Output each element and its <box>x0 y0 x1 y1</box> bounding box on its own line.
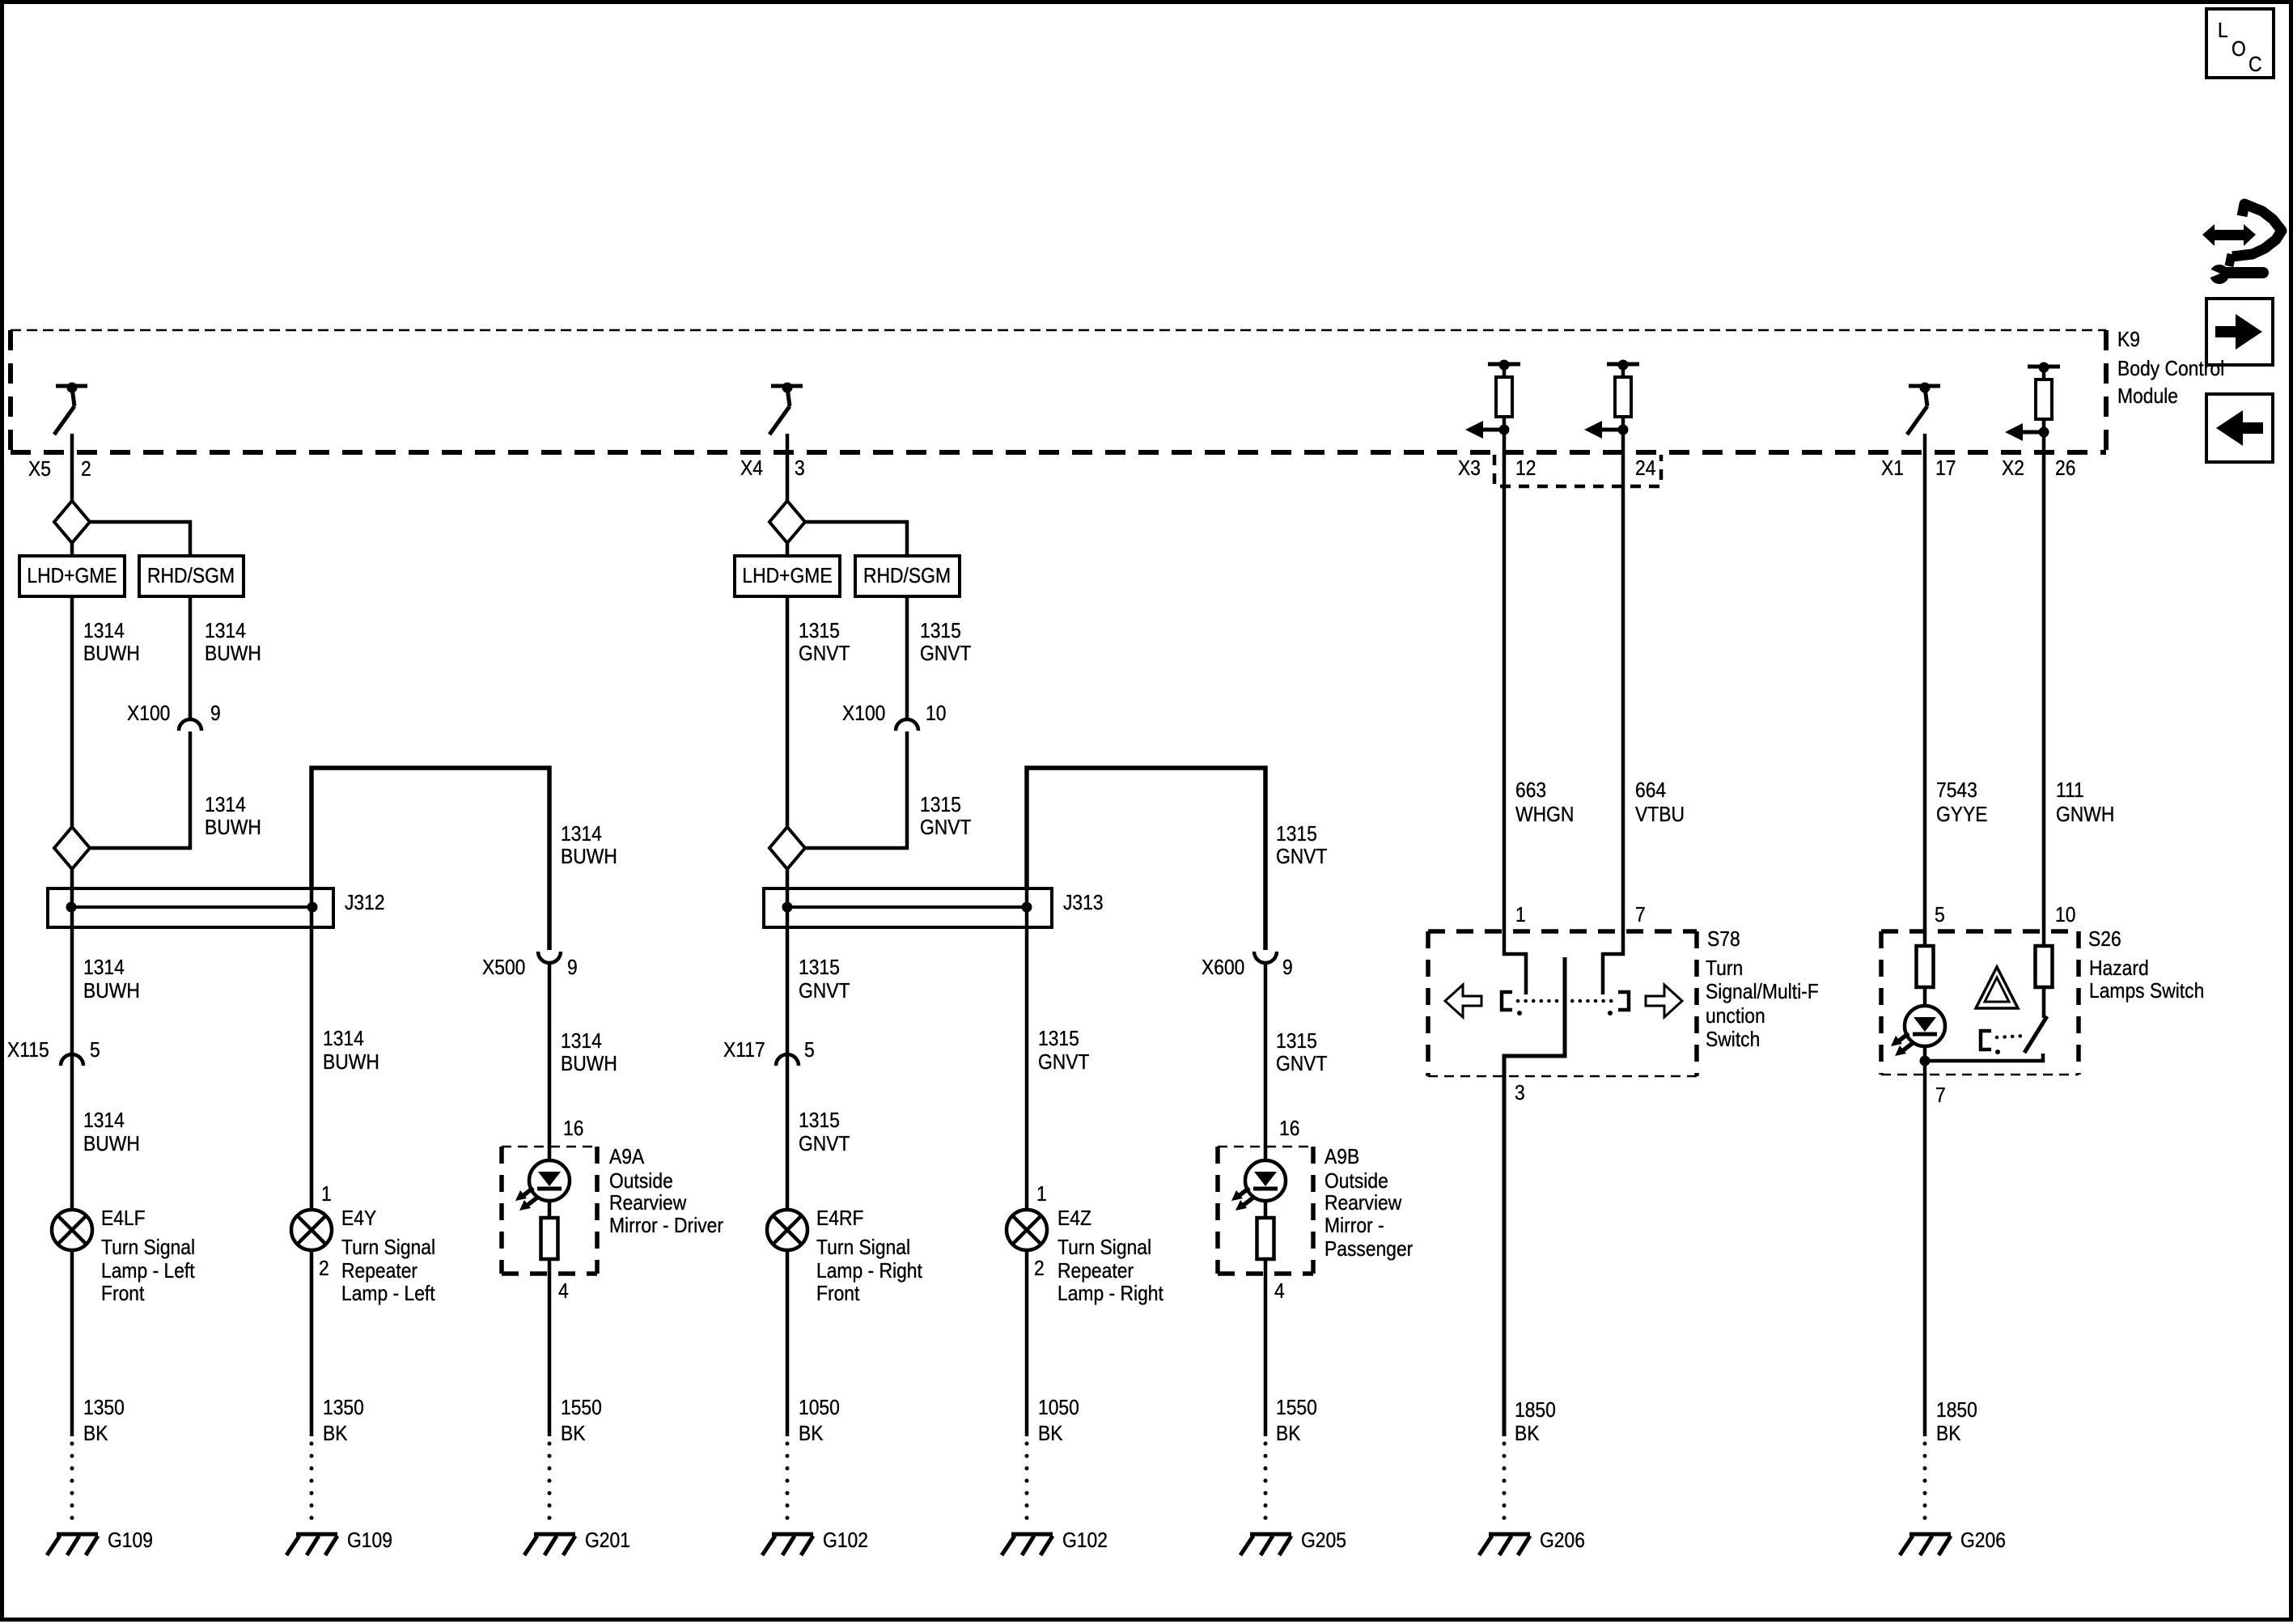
wire label 1350 BK (C1) <box>83 1397 125 1446</box>
svg-text:17: 17 <box>1935 457 1956 481</box>
wire label 7543 GYYE <box>1936 779 1988 827</box>
svg-text:X100: X100 <box>842 702 885 726</box>
svg-text:BK: BK <box>1038 1423 1063 1446</box>
wire C4 1315 GNVT right front feed <box>786 434 790 1436</box>
wire label 1314 BUWH (C3 below X500) <box>561 1030 617 1076</box>
svg-text:Repeater: Repeater <box>341 1260 417 1283</box>
svg-text:Lamp - Left: Lamp - Left <box>341 1283 435 1306</box>
splice pack J312 <box>48 888 385 927</box>
wire C3 mirror driver <box>548 964 552 1436</box>
svg-text:GNVT: GNVT <box>1276 1053 1328 1076</box>
wire label 111 GNWH <box>2056 779 2114 827</box>
resistor in mirror A9A <box>541 1218 558 1259</box>
svg-text:10: 10 <box>926 702 946 726</box>
svg-text:Signal/Multi-F: Signal/Multi-F <box>1706 981 1819 1004</box>
svg-text:unction: unction <box>1706 1005 1765 1028</box>
nav arrow box (left) <box>2206 394 2273 462</box>
wire 664 VTBU <box>1603 430 1623 994</box>
svg-text:Rearview: Rearview <box>1325 1192 1402 1215</box>
wire C6 mirror passenger <box>1264 964 1268 1436</box>
svg-text:VTBU: VTBU <box>1635 804 1685 827</box>
LED indicator in mirror A9B <box>1231 1160 1286 1211</box>
svg-text:1: 1 <box>1036 1183 1047 1206</box>
option box RHD/SGM group1 <box>139 556 244 596</box>
svg-text:1850: 1850 <box>1936 1399 1977 1423</box>
svg-text:3: 3 <box>1515 1082 1525 1105</box>
svg-text:G102: G102 <box>1062 1529 1108 1553</box>
svg-text:111: 111 <box>2056 779 2084 803</box>
connector X100 pin 9 <box>127 702 221 731</box>
svg-text:GYYE: GYYE <box>1936 804 1988 827</box>
svg-text:X1: X1 <box>1881 457 1904 481</box>
svg-text:S26: S26 <box>2088 928 2121 952</box>
wire 7543 GYYE <box>1923 434 1927 1436</box>
svg-text:Front: Front <box>816 1283 860 1306</box>
wire label 1850 BK (C9) <box>1936 1399 1977 1446</box>
svg-text:9: 9 <box>567 956 578 980</box>
svg-text:Turn: Turn <box>1706 957 1743 981</box>
wire C2 repeater left <box>312 768 549 950</box>
S26 contact dotted line <box>1997 1036 2026 1037</box>
svg-text:1315: 1315 <box>799 1109 840 1133</box>
svg-text:2: 2 <box>81 458 91 481</box>
wire dotted tail at x=385 <box>310 1444 314 1529</box>
svg-text:BK: BK <box>83 1423 108 1446</box>
resistor in mirror A9B <box>1257 1218 1274 1259</box>
ground G205 <box>1240 1529 1346 1555</box>
svg-text:G206: G206 <box>1540 1529 1585 1553</box>
svg-text:1: 1 <box>321 1183 332 1206</box>
ground G201 <box>524 1529 630 1555</box>
S78 left direction arrow <box>1445 985 1481 1017</box>
resistor S26 left leg <box>1917 946 1934 987</box>
svg-text:Body Control: Body Control <box>2117 358 2224 381</box>
switch contact X4-3 (BCM) <box>769 383 803 435</box>
svg-text:G206: G206 <box>1960 1529 2006 1553</box>
S78 right direction arrow <box>1646 985 1682 1017</box>
connector X2 pin 26 <box>2002 457 2075 481</box>
svg-text:1315: 1315 <box>1038 1028 1079 1051</box>
svg-text:Turn Signal: Turn Signal <box>1057 1236 1151 1260</box>
svg-text:1315: 1315 <box>920 794 961 817</box>
wire dotted tail at x=1859 <box>1503 1444 1507 1529</box>
splice diamond lower group2 <box>769 827 805 869</box>
svg-text:9: 9 <box>1282 956 1293 980</box>
splice diamond lower group1 <box>54 827 90 869</box>
svg-text:X4: X4 <box>740 457 763 481</box>
svg-text:J312: J312 <box>345 892 385 915</box>
wire label 1314 BUWH (LHD) <box>83 620 140 666</box>
wire S78 pole and 1850 BK <box>1504 957 1565 1436</box>
S26 contact dot <box>1995 1049 2000 1054</box>
svg-text:Outside: Outside <box>1325 1170 1388 1194</box>
resistor output X3-12 (BCM) <box>1465 360 1520 439</box>
wire 663 WHGN <box>1504 430 1526 994</box>
wire label 1315 GNVT (C6 top) <box>1276 823 1328 869</box>
svg-text:GNVT: GNVT <box>799 1133 850 1156</box>
S26 lower contact wire <box>1925 1054 2043 1061</box>
svg-text:1: 1 <box>1515 904 1526 927</box>
svg-text:BK: BK <box>323 1423 348 1446</box>
svg-text:G201: G201 <box>585 1529 630 1553</box>
wire label 1315 GNVT (C6 below X600) <box>1276 1030 1328 1076</box>
svg-text:Front: Front <box>101 1283 145 1306</box>
wire label 1315 GNVT (C5) <box>1038 1028 1090 1075</box>
svg-text:LHD+GME: LHD+GME <box>742 565 832 588</box>
svg-text:1314: 1314 <box>323 1028 364 1051</box>
option box RHD/SGM group2 <box>855 556 960 596</box>
wire label 664 VTBU <box>1635 779 1685 827</box>
svg-text:Repeater: Repeater <box>1057 1260 1134 1283</box>
wire C1 1314 BUWH left front feed <box>70 434 74 1436</box>
svg-text:X117: X117 <box>723 1039 765 1062</box>
svg-text:1314: 1314 <box>83 620 125 643</box>
svg-text:Switch: Switch <box>1706 1028 1760 1052</box>
svg-text:12: 12 <box>1515 457 1536 481</box>
svg-text:7: 7 <box>1635 904 1646 927</box>
wire label 1350 BK (C2) <box>323 1397 364 1446</box>
module K9 Body Control Module dashed outline <box>11 330 2106 452</box>
wire label 1050 BK (C5) <box>1038 1397 1079 1446</box>
resistor S26 right leg <box>2036 946 2053 987</box>
svg-text:1314: 1314 <box>205 794 246 817</box>
svg-text:L: L <box>2218 19 2228 43</box>
hazard triangle symbol <box>1976 967 2018 1008</box>
svg-text:BK: BK <box>1276 1423 1301 1446</box>
svg-text:BUWH: BUWH <box>83 980 140 1003</box>
svg-text:X2: X2 <box>2002 457 2024 481</box>
connector X115 pin 5 <box>7 1039 100 1066</box>
wire RHD branch group1 <box>90 522 190 720</box>
svg-text:5: 5 <box>804 1039 815 1062</box>
switch contact X1-17 (BCM) <box>1907 383 1940 435</box>
wire label 663 WHGN <box>1515 779 1574 827</box>
svg-text:16: 16 <box>563 1117 583 1141</box>
svg-text:BUWH: BUWH <box>205 816 261 840</box>
wire label 1315 GNVT (below X117) <box>799 1109 850 1156</box>
svg-text:9: 9 <box>210 702 221 726</box>
svg-text:Turn Signal: Turn Signal <box>101 1236 195 1260</box>
svg-text:Turn Signal: Turn Signal <box>341 1236 435 1260</box>
ground G102 <box>762 1529 868 1555</box>
svg-text:C: C <box>2248 53 2262 77</box>
svg-text:BK: BK <box>1515 1423 1540 1446</box>
ground G206 <box>1900 1529 2006 1555</box>
svg-text:RHD/SGM: RHD/SGM <box>863 565 951 588</box>
connector X117 pin 5 <box>723 1039 815 1066</box>
harness routing icon <box>2202 204 2282 284</box>
svg-text:1315: 1315 <box>920 620 961 643</box>
svg-text:Module: Module <box>2117 385 2178 409</box>
splice diamond upper group1 <box>54 501 90 543</box>
svg-text:1050: 1050 <box>799 1397 840 1420</box>
connector X600 pin 9 <box>1202 952 1293 979</box>
svg-text:Mirror -: Mirror - <box>1325 1215 1384 1238</box>
wire label 1315 GNVT (RHD) <box>920 620 972 666</box>
svg-text:4: 4 <box>1274 1280 1285 1304</box>
svg-text:GNWH: GNWH <box>2056 804 2114 827</box>
svg-text:1315: 1315 <box>799 620 840 643</box>
svg-text:Lamp - Right: Lamp - Right <box>1057 1283 1163 1306</box>
svg-text:2: 2 <box>1034 1257 1045 1281</box>
svg-text:GNVT: GNVT <box>799 642 850 666</box>
svg-text:E4RF: E4RF <box>816 1207 863 1231</box>
connector X4 pin 3 <box>740 457 805 481</box>
svg-text:1314: 1314 <box>205 620 246 643</box>
connector X1 pin 17 <box>1881 457 1956 481</box>
svg-text:Lamps Switch: Lamps Switch <box>2089 980 2204 1003</box>
svg-text:BK: BK <box>799 1423 824 1446</box>
svg-text:1314: 1314 <box>83 1109 125 1133</box>
svg-text:Rearview: Rearview <box>609 1192 687 1215</box>
svg-text:4: 4 <box>558 1280 569 1304</box>
wire label 1550 BK (C6) <box>1276 1397 1317 1446</box>
S78 right contact bracket <box>1618 992 1629 1010</box>
label S26 Hazard Lamps Switch <box>2088 928 2204 1003</box>
lamp E4RF Turn Signal Lamp Right Front <box>767 1207 922 1306</box>
wire label 1314 BUWH (below X100) <box>205 794 261 840</box>
wire label 1314 BUWH (RHD) <box>205 620 261 666</box>
svg-text:1314: 1314 <box>83 956 125 980</box>
svg-text:BUWH: BUWH <box>83 1133 140 1156</box>
svg-text:BUWH: BUWH <box>561 1053 617 1076</box>
svg-text:BK: BK <box>561 1423 586 1446</box>
svg-text:J313: J313 <box>1063 892 1104 915</box>
svg-text:5: 5 <box>1935 904 1945 927</box>
svg-text:16: 16 <box>1279 1117 1299 1141</box>
S78 left contact bracket <box>1502 992 1512 1010</box>
wire dotted tail at x=679 <box>548 1444 552 1529</box>
lamp E4Y Turn Signal Repeater Lamp Left <box>291 1183 435 1306</box>
S26 switch blade <box>2024 1016 2047 1053</box>
svg-text:X3: X3 <box>1458 457 1481 481</box>
wire label 1314 BUWH (C3 top) <box>561 823 617 869</box>
lamp E4Z Turn Signal Repeater Lamp Right <box>1007 1183 1163 1306</box>
svg-text:BUWH: BUWH <box>205 642 261 666</box>
svg-text:X115: X115 <box>7 1039 49 1062</box>
wire dotted tail at x=1269 <box>1025 1444 1029 1529</box>
S26 contact bracket <box>1981 1031 1991 1049</box>
lamp E4LF Turn Signal Lamp Left Front <box>52 1207 195 1306</box>
svg-text:7: 7 <box>1935 1084 1946 1108</box>
svg-text:LHD+GME: LHD+GME <box>27 565 117 588</box>
svg-text:1350: 1350 <box>323 1397 364 1420</box>
svg-text:E4Y: E4Y <box>341 1207 376 1231</box>
svg-text:X100: X100 <box>127 702 170 726</box>
wire label 1315 GNVT (C4 below J313) <box>799 956 850 1003</box>
svg-text:Mirror - Driver: Mirror - Driver <box>609 1215 723 1238</box>
ground G102 <box>1002 1529 1108 1555</box>
svg-text:24: 24 <box>1635 457 1655 481</box>
svg-text:G205: G205 <box>1301 1529 1346 1553</box>
splice diamond upper group2 <box>769 501 805 543</box>
svg-text:GNVT: GNVT <box>920 642 972 666</box>
svg-text:BUWH: BUWH <box>323 1051 379 1075</box>
resistor output X3-24 (BCM) <box>1584 360 1639 439</box>
label K9 Body Control Module <box>2117 329 2224 409</box>
wire C5 repeater right <box>1027 768 1265 950</box>
svg-text:1315: 1315 <box>799 956 840 980</box>
wire label 1850 BK (C7) <box>1515 1399 1556 1446</box>
svg-text:1315: 1315 <box>1276 823 1317 846</box>
svg-text:Outside: Outside <box>609 1170 673 1194</box>
svg-text:RHD/SGM: RHD/SGM <box>147 565 235 588</box>
wire label 1314 BUWH (C2) <box>323 1028 379 1075</box>
ground G109 <box>47 1529 153 1555</box>
option box LHD+GME group1 <box>19 556 125 596</box>
svg-text:Passenger: Passenger <box>1325 1238 1413 1261</box>
svg-text:1850: 1850 <box>1515 1399 1556 1423</box>
svg-text:E4LF: E4LF <box>101 1207 146 1231</box>
svg-text:E4Z: E4Z <box>1057 1207 1091 1231</box>
wire dotted tail at x=2379 <box>1923 1444 1927 1529</box>
svg-text:7543: 7543 <box>1936 779 1977 803</box>
svg-text:1314: 1314 <box>561 823 602 846</box>
wire dotted tail at x=973 <box>786 1444 790 1529</box>
splice pack J313 <box>764 888 1104 927</box>
wire 111 GNWH <box>2042 434 2046 1018</box>
ground G206 <box>1479 1529 1585 1555</box>
svg-text:Hazard: Hazard <box>2089 957 2149 981</box>
svg-text:1050: 1050 <box>1038 1397 1079 1420</box>
wire dotted tail at x=1564 <box>1264 1444 1268 1529</box>
junction dot S26 <box>1920 1056 1931 1066</box>
ground G109 <box>286 1529 392 1555</box>
nav arrow box (right) <box>2206 299 2273 365</box>
svg-text:10: 10 <box>2055 904 2075 927</box>
wire label 1550 BK (C3) <box>561 1397 602 1446</box>
switch S78 dashed box <box>1428 931 1697 1076</box>
svg-text:1314: 1314 <box>561 1030 602 1054</box>
wire label 1050 BK (C4) <box>799 1397 840 1446</box>
svg-text:GNVT: GNVT <box>920 816 972 840</box>
svg-text:X500: X500 <box>482 956 525 980</box>
option box LHD+GME group2 <box>735 556 840 596</box>
module A9B Outside Rearview Mirror Passenger dashed box <box>1218 1146 1413 1274</box>
svg-text:BK: BK <box>1936 1423 1961 1446</box>
wire label 1314 BUWH (below X115) <box>83 1109 140 1156</box>
svg-text:GNVT: GNVT <box>1276 846 1328 869</box>
svg-text:GNVT: GNVT <box>1038 1051 1090 1075</box>
svg-text:X600: X600 <box>1202 956 1244 980</box>
svg-text:G109: G109 <box>347 1529 392 1553</box>
svg-text:BUWH: BUWH <box>561 846 617 869</box>
svg-text:K9: K9 <box>2117 329 2140 352</box>
svg-text:O: O <box>2232 38 2246 61</box>
LED indicator in mirror A9A <box>515 1160 570 1211</box>
svg-text:G102: G102 <box>823 1529 868 1553</box>
S78 contact dotted line <box>1518 999 1618 1003</box>
svg-text:G109: G109 <box>108 1529 153 1553</box>
svg-text:Lamp - Right: Lamp - Right <box>816 1260 922 1283</box>
svg-text:1315: 1315 <box>1276 1030 1317 1054</box>
svg-text:S78: S78 <box>1707 928 1740 952</box>
svg-text:663: 663 <box>1515 779 1546 803</box>
svg-text:BUWH: BUWH <box>83 642 140 666</box>
svg-text:A9A: A9A <box>609 1146 645 1169</box>
LED indicator S26 <box>1891 1006 1945 1056</box>
svg-text:X5: X5 <box>28 458 51 481</box>
module A9A Outside Rearview Mirror Driver dashed box <box>502 1146 723 1274</box>
svg-text:Lamp - Left: Lamp - Left <box>101 1260 195 1283</box>
LOC logo box <box>2206 9 2274 78</box>
S78 contact dots <box>1517 1011 1522 1016</box>
wire label 1315 GNVT (below X100) <box>920 794 972 840</box>
switch contact X5-2 (BCM) <box>54 383 87 435</box>
wire label 1315 GNVT (LHD) <box>799 620 850 666</box>
wire dotted tail at x=89 <box>70 1444 74 1529</box>
svg-text:1350: 1350 <box>83 1397 125 1420</box>
wire RHD branch group2 <box>805 522 907 720</box>
svg-text:26: 26 <box>2055 457 2075 481</box>
resistor output X2-26 (BCM) <box>2005 363 2060 442</box>
svg-text:WHGN: WHGN <box>1515 804 1574 827</box>
svg-text:A9B: A9B <box>1325 1146 1359 1169</box>
svg-text:1550: 1550 <box>561 1397 602 1420</box>
svg-text:Turn Signal: Turn Signal <box>816 1236 910 1260</box>
connector X100 pin 10 <box>842 702 946 731</box>
switch S26 dashed box <box>1881 931 2079 1075</box>
label S78 Turn Signal/Multi-Function Switch <box>1706 928 1819 1052</box>
wire label 1314 BUWH (C1 below J312) <box>83 956 140 1003</box>
svg-text:664: 664 <box>1635 779 1666 803</box>
svg-text:GNVT: GNVT <box>799 980 850 1003</box>
connector X3 dashed box pins 12 24 <box>1458 455 1661 486</box>
svg-text:5: 5 <box>90 1039 100 1062</box>
svg-text:1550: 1550 <box>1276 1397 1317 1420</box>
svg-text:3: 3 <box>795 457 805 481</box>
connector X500 pin 9 <box>482 952 578 979</box>
connector X5 pin 2 <box>28 458 91 481</box>
svg-text:2: 2 <box>319 1257 329 1281</box>
